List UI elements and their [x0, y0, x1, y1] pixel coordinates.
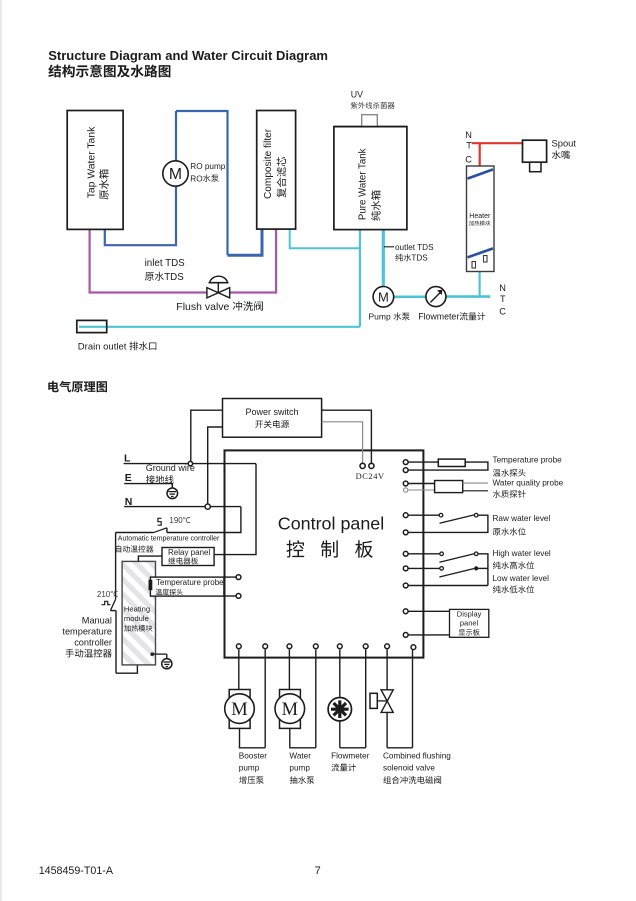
- svg-text:190: 190: [169, 516, 183, 525]
- svg-text:Pump: Pump: [369, 312, 391, 322]
- svg-text:M: M: [169, 166, 182, 183]
- svg-text:T: T: [466, 141, 472, 151]
- svg-text:Composite filter: Composite filter: [263, 128, 274, 199]
- svg-text:Power switch: Power switch: [246, 407, 299, 417]
- svg-text:M: M: [231, 700, 247, 720]
- svg-text:TDS: TDS: [164, 272, 184, 283]
- svg-text:temperature: temperature: [62, 627, 112, 637]
- svg-text:pump: pump: [289, 764, 310, 773]
- svg-text:Temperature probe: Temperature probe: [493, 456, 563, 465]
- svg-text:outlet TDS: outlet TDS: [395, 243, 434, 252]
- svg-text:Flowmeter: Flowmeter: [418, 312, 459, 322]
- svg-text:Water: Water: [289, 751, 311, 760]
- svg-text:C: C: [465, 154, 472, 164]
- svg-text:Raw water level: Raw water level: [493, 514, 551, 523]
- svg-text:210: 210: [97, 590, 111, 599]
- svg-text:C: C: [499, 307, 506, 317]
- svg-text:UV: UV: [351, 90, 363, 100]
- svg-text:Spout: Spout: [552, 138, 577, 149]
- svg-text:Pure Water Tank: Pure Water Tank: [357, 148, 368, 220]
- svg-text:Drain outlet: Drain outlet: [78, 342, 127, 353]
- svg-text:inlet TDS: inlet TDS: [145, 258, 186, 269]
- svg-text:Structure Diagram and Water Ci: Structure Diagram and Water Circuit Diag…: [48, 48, 328, 63]
- svg-text:Water quality probe: Water quality probe: [493, 478, 564, 487]
- svg-text:RO: RO: [190, 174, 202, 183]
- svg-text:TDS: TDS: [411, 254, 428, 263]
- svg-text:N: N: [499, 283, 506, 293]
- svg-text:Relay panel: Relay panel: [168, 548, 210, 557]
- svg-text:Booster: Booster: [239, 751, 267, 760]
- svg-text:pump: pump: [239, 764, 260, 773]
- svg-text:Heating: Heating: [124, 604, 150, 613]
- svg-text:Temperature probe: Temperature probe: [156, 578, 224, 587]
- svg-text:DC24V: DC24V: [356, 472, 385, 481]
- svg-text:E: E: [125, 472, 132, 484]
- svg-text:M: M: [378, 290, 389, 305]
- svg-text:N: N: [465, 130, 472, 140]
- svg-text:Combined flushing: Combined flushing: [383, 751, 451, 760]
- svg-text:High water level: High water level: [493, 549, 551, 558]
- svg-text:Low water level: Low water level: [493, 574, 550, 583]
- svg-text:7: 7: [315, 865, 321, 877]
- svg-text:controller: controller: [74, 638, 112, 648]
- svg-text:T: T: [500, 294, 506, 304]
- svg-text:Control panel: Control panel: [278, 513, 384, 533]
- svg-text:Flowmeter: Flowmeter: [331, 751, 369, 760]
- svg-text:Automatic temperature controll: Automatic temperature controller: [118, 535, 220, 542]
- svg-text:solenoid valve: solenoid valve: [383, 764, 435, 773]
- svg-text:Flush valve: Flush valve: [176, 301, 229, 313]
- svg-text:panel: panel: [460, 619, 479, 628]
- svg-text:M: M: [282, 700, 298, 720]
- svg-text:module: module: [124, 614, 149, 623]
- svg-text:Heater: Heater: [469, 213, 491, 220]
- svg-text:Manual: Manual: [82, 616, 112, 626]
- svg-text:Display: Display: [457, 610, 482, 619]
- svg-text:Tap Water Tank: Tap Water Tank: [86, 126, 97, 198]
- svg-text:Ground wire: Ground wire: [146, 463, 195, 473]
- svg-text:RO pump: RO pump: [190, 162, 225, 171]
- svg-text:1458459-T01-A: 1458459-T01-A: [39, 865, 114, 877]
- svg-text:L: L: [124, 452, 131, 464]
